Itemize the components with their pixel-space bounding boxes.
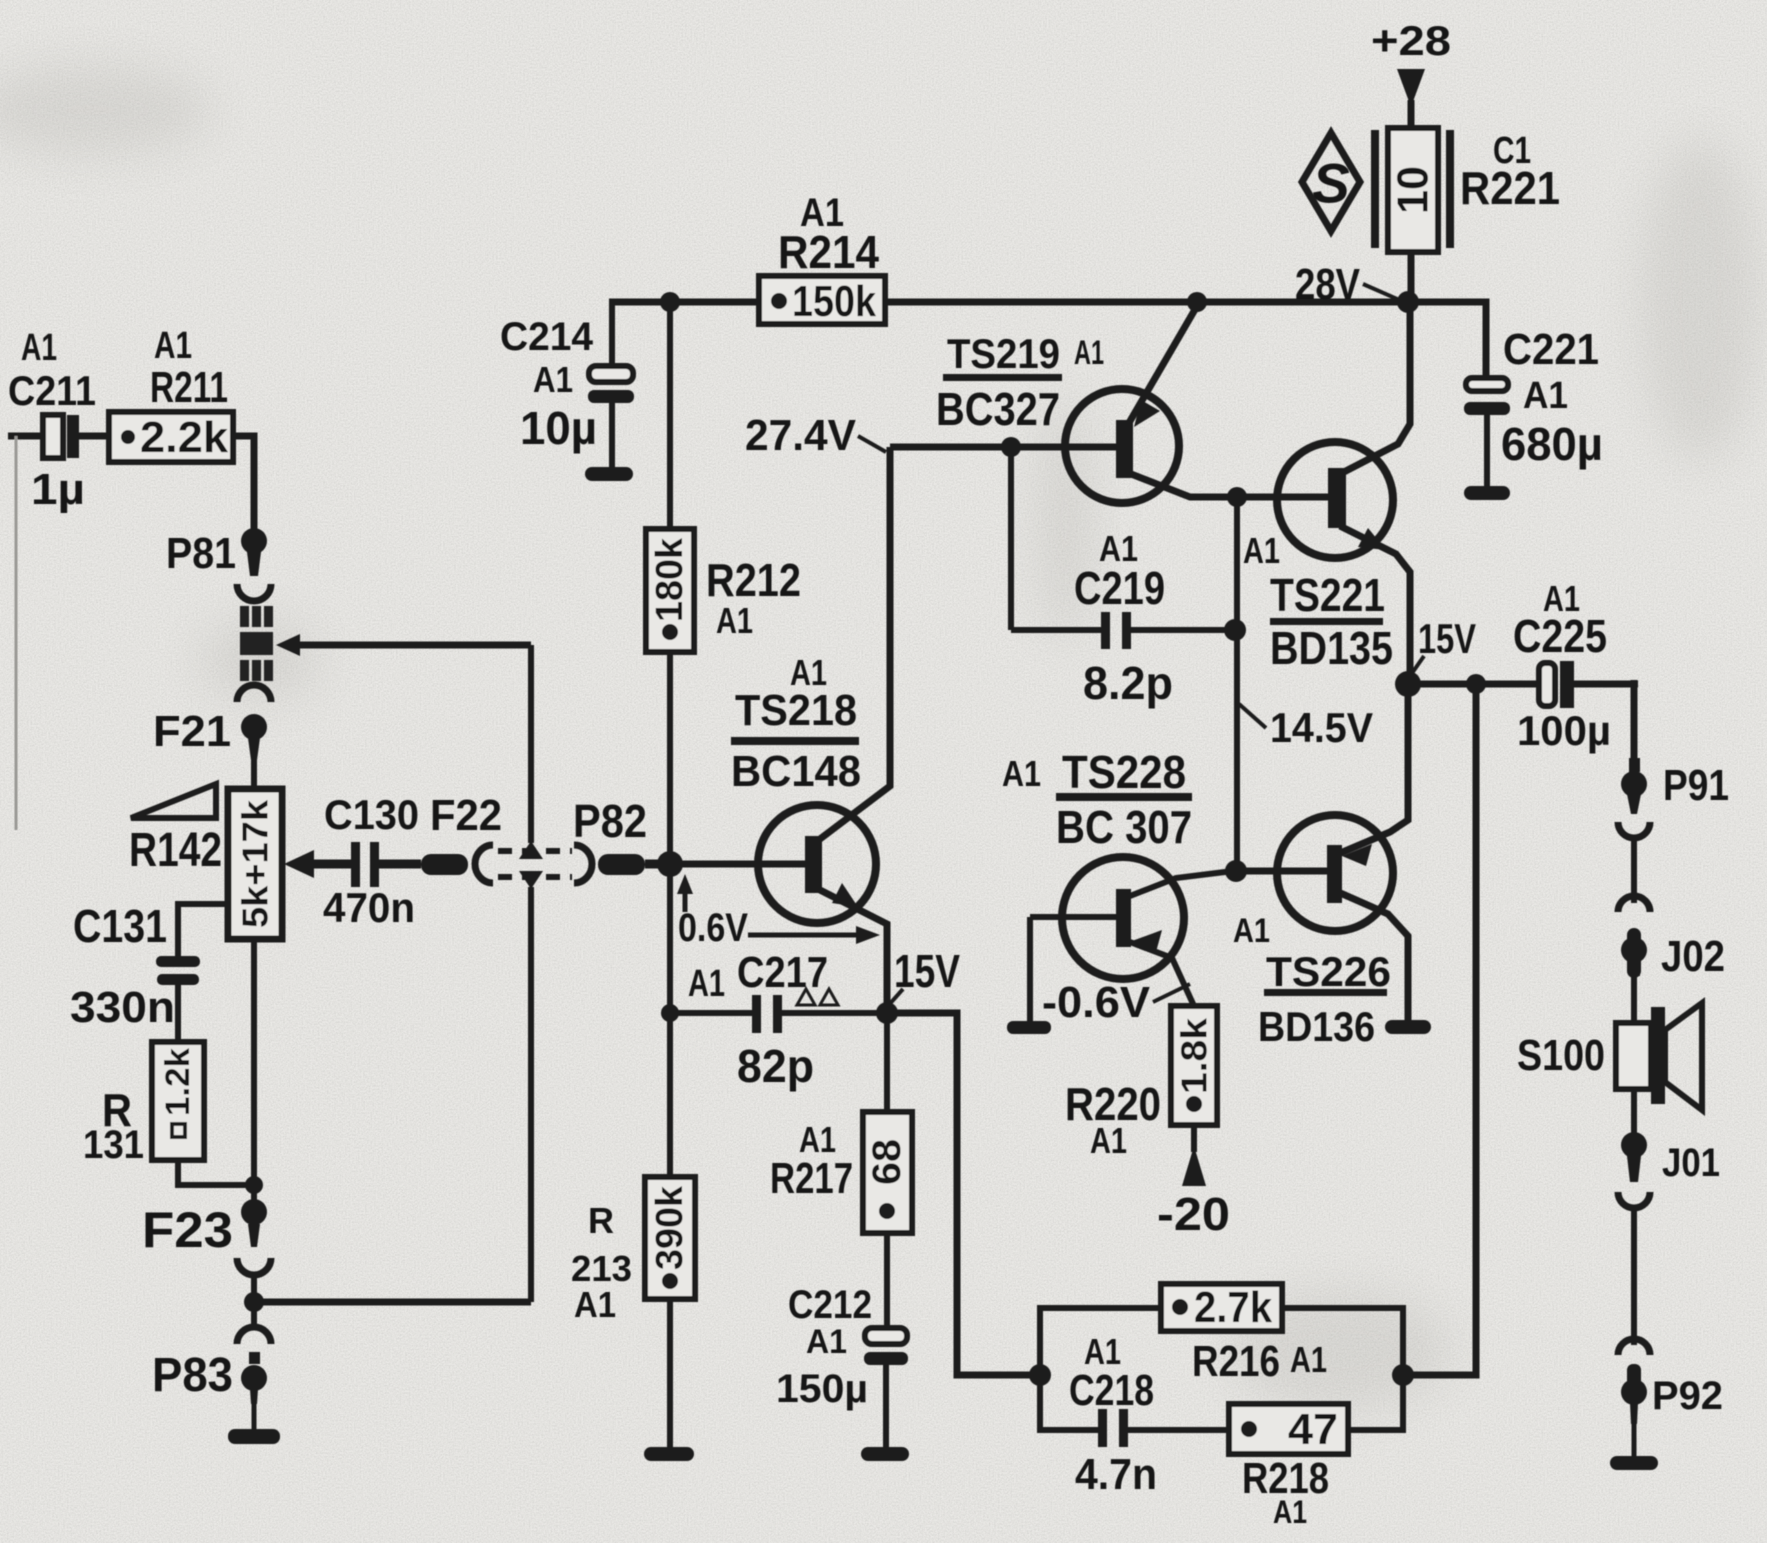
svg-text:BC327: BC327 — [936, 383, 1060, 435]
junction pot/R131 — [245, 1176, 263, 1194]
connector pin P91 — [1621, 758, 1647, 814]
svg-text:A1: A1 — [574, 1284, 616, 1325]
wire feedback to output column — [1403, 684, 1476, 1375]
svg-text:TS218: TS218 — [735, 686, 857, 735]
svg-text:A1: A1 — [1290, 1339, 1327, 1380]
junction node to shield bus — [244, 1292, 531, 1312]
svg-text:A1: A1 — [1002, 753, 1041, 794]
wire base TS218 — [668, 861, 807, 868]
svg-text:P91: P91 — [1663, 761, 1729, 810]
resistor R131 1.2k — [152, 1042, 254, 1185]
connector pin J01 — [1621, 1132, 1647, 1182]
svg-text:P83: P83 — [152, 1349, 233, 1402]
junction C217 left — [661, 1004, 679, 1022]
pot left tap wire to C131 — [178, 904, 228, 956]
svg-text:A1: A1 — [533, 359, 573, 400]
svg-text:A1: A1 — [1273, 1494, 1307, 1530]
svg-text:R: R — [588, 1200, 614, 1241]
junction TS219 emitter / rail — [1187, 292, 1207, 312]
socket above P92 — [1618, 1339, 1650, 1355]
wire TS218 collector to TS219 base — [890, 444, 1118, 451]
svg-text:27.4V: 27.4V — [745, 411, 857, 460]
svg-text:390k: 390k — [649, 1185, 691, 1270]
wire J01 to P92 — [1631, 1206, 1637, 1345]
connector F22 socket — [475, 845, 493, 883]
svg-text:R142: R142 — [129, 824, 222, 877]
socket above P83 — [237, 1327, 271, 1344]
capacitor C218 4.7n branch — [1040, 1375, 1229, 1447]
svg-text:J01: J01 — [1662, 1141, 1720, 1185]
ground at TS226 — [1385, 1020, 1431, 1034]
svg-text:-20: -20 — [1157, 1188, 1230, 1240]
capacitor C214 10µ — [588, 302, 634, 467]
ground at R213 — [644, 1447, 694, 1461]
capacitor C211 1µ — [43, 415, 109, 458]
-20 supply arrow — [1182, 1125, 1206, 1186]
resistor R211 2.2k — [109, 412, 233, 462]
svg-text:82p: 82p — [737, 1040, 814, 1092]
shielded connector hatch block — [240, 606, 273, 681]
socket below F23 — [237, 1258, 271, 1275]
svg-text:A1: A1 — [1523, 375, 1568, 417]
connector pin P83 — [241, 1352, 267, 1430]
svg-text:C219: C219 — [1074, 562, 1165, 614]
transistor TS228 BC307 — [1030, 857, 1233, 1021]
15V tick — [887, 989, 903, 1007]
svg-text:680µ: 680µ — [1501, 418, 1603, 470]
svg-text:TS219: TS219 — [947, 330, 1060, 377]
underline TS218 — [731, 737, 859, 745]
svg-text:F23: F23 — [142, 1202, 233, 1258]
svg-text:C130: C130 — [324, 791, 419, 838]
resistor R212 180k — [646, 529, 694, 652]
connector P82 socket — [574, 845, 592, 883]
27.4V tick — [858, 436, 886, 452]
transistor TS218 BC148 — [758, 447, 890, 1013]
svg-text:2.2k: 2.2k — [140, 413, 229, 462]
resistor R220 1.8k — [1171, 1006, 1217, 1125]
connector P82 male pin — [598, 854, 680, 875]
svg-text:R217: R217 — [770, 1154, 853, 1203]
svg-text:TS226: TS226 — [1266, 948, 1391, 995]
svg-text:131: 131 — [83, 1123, 144, 1167]
marks two triangles at C217 — [797, 989, 838, 1005]
svg-text:TS221: TS221 — [1270, 569, 1385, 621]
potentiometer 5k+17k — [228, 789, 282, 939]
wire down to C219 — [1008, 447, 1014, 630]
feedback right junction — [1392, 1364, 1414, 1386]
shield tap wire to vertical bus — [276, 634, 531, 656]
+28 supply arrow — [1397, 69, 1425, 128]
svg-text:TS228: TS228 — [1062, 746, 1186, 798]
svg-text:P82: P82 — [573, 795, 647, 847]
svg-text:C225: C225 — [1513, 610, 1607, 662]
shield dashed link F22-P82 — [498, 851, 572, 877]
svg-text:S100: S100 — [1517, 1031, 1605, 1080]
ground at P83 — [228, 1429, 280, 1444]
svg-text:47: 47 — [1288, 1405, 1338, 1454]
svg-text:0.6V: 0.6V — [678, 906, 748, 950]
svg-text:A1: A1 — [1243, 530, 1280, 571]
shield bus arrows at F22 — [519, 841, 543, 889]
svg-text:A1: A1 — [1090, 1120, 1127, 1161]
svg-text:213: 213 — [571, 1248, 632, 1289]
wire C225 down to P91 — [1631, 680, 1638, 762]
svg-text:5k+17k: 5k+17k — [235, 799, 276, 928]
svg-text:10µ: 10µ — [520, 402, 597, 454]
svg-text:C221: C221 — [1503, 325, 1599, 374]
svg-text:2.7k: 2.7k — [1194, 1283, 1272, 1332]
svg-text:R221: R221 — [1460, 162, 1560, 214]
resistor R217 68 — [863, 1013, 912, 1233]
ground at P92 — [1610, 1456, 1658, 1470]
svg-text:F22: F22 — [430, 791, 502, 840]
svg-text:+28: +28 — [1371, 17, 1451, 64]
svg-text:A1: A1 — [1233, 912, 1270, 950]
connector pin P81 — [241, 528, 267, 576]
capacitor C225 100µ — [1539, 661, 1638, 708]
ground at C221 — [1464, 486, 1510, 500]
wire base TS226 — [1236, 868, 1331, 875]
svg-text:A1: A1 — [21, 327, 57, 369]
wire 15V node to C225 — [1408, 681, 1539, 688]
svg-text:C212: C212 — [788, 1283, 872, 1327]
junction C219 right — [1224, 619, 1246, 641]
svg-text:470n: 470n — [323, 884, 415, 931]
svg-text:100µ: 100µ — [1517, 707, 1611, 754]
capacitor C131 330n — [156, 956, 200, 1042]
socket below J01 — [1618, 1192, 1650, 1208]
wire to P83 junction — [251, 1272, 257, 1330]
14.5V tick — [1239, 704, 1266, 728]
svg-text:J02: J02 — [1661, 932, 1725, 981]
svg-text:P92: P92 — [1652, 1374, 1723, 1418]
connector pin P92 — [1621, 1364, 1647, 1458]
capacitor C221 680µ — [1464, 378, 1510, 486]
svg-text:180k: 180k — [649, 537, 691, 622]
connector pin J02 — [1621, 928, 1647, 1023]
connector F22 male pin — [421, 854, 468, 875]
junction P82 node — [657, 851, 683, 877]
resistor R214 150k — [759, 276, 885, 326]
svg-text:14.5V: 14.5V — [1270, 704, 1373, 751]
socket below P81 — [237, 584, 271, 601]
svg-text:C211: C211 — [8, 367, 96, 414]
svg-text:R212: R212 — [706, 554, 801, 606]
underline TS219 — [943, 374, 1062, 381]
junction TS219 collector node — [1227, 487, 1247, 507]
svg-text:1.2k: 1.2k — [159, 1048, 197, 1116]
svg-text:A1: A1 — [154, 325, 192, 367]
resistor R218 47 — [1229, 1375, 1403, 1454]
svg-text:150k: 150k — [792, 277, 876, 326]
capacitor C130 470n — [351, 842, 421, 887]
svg-text:A1: A1 — [716, 600, 753, 641]
wire R211 to P81 — [233, 436, 254, 530]
svg-text:R216: R216 — [1192, 1337, 1280, 1386]
svg-text:8.2p: 8.2p — [1083, 657, 1173, 709]
svg-text:A1: A1 — [806, 1323, 847, 1361]
transistor TS221 BD135 — [1277, 302, 1410, 682]
svg-text:R214: R214 — [778, 226, 879, 278]
ground at C214 — [585, 467, 633, 481]
resistor R216 2.7k branch — [1040, 1283, 1403, 1375]
svg-text:F21: F21 — [153, 707, 231, 756]
svg-text:C218: C218 — [1069, 1366, 1154, 1415]
junction C219 top — [1001, 437, 1021, 457]
svg-text:4.7n: 4.7n — [1075, 1450, 1157, 1499]
svg-text:68: 68 — [865, 1139, 909, 1185]
junction 15V output node — [1395, 671, 1421, 697]
svg-text:C131: C131 — [73, 900, 167, 952]
svg-text:C214: C214 — [500, 315, 594, 359]
0.6V arrow to emitter — [748, 926, 880, 944]
socket below P91 — [1618, 822, 1650, 838]
S diamond logo — [1302, 133, 1360, 231]
transistor TS226 BD136 — [1277, 686, 1408, 1020]
connector pin F21 — [241, 714, 267, 790]
junction 28V — [1397, 291, 1419, 313]
transistor TS219 BC327 — [1065, 306, 1237, 503]
svg-text:10: 10 — [1389, 166, 1438, 214]
wire pot bottom down — [251, 939, 257, 1200]
junction TS226 base node — [1225, 860, 1247, 882]
svg-text:S: S — [1312, 152, 1349, 215]
junction 15V node mid — [876, 1002, 898, 1024]
junction output/C225 — [1466, 674, 1486, 694]
wire input stub left of C211 — [8, 436, 43, 830]
svg-text:A1: A1 — [1074, 334, 1104, 372]
svg-text:1µ: 1µ — [31, 465, 85, 514]
wire column R212 — [667, 302, 673, 1013]
svg-text:C217: C217 — [737, 948, 828, 997]
underline TS228 — [1056, 793, 1192, 801]
connector pin F23 — [241, 1199, 267, 1247]
svg-text:15V: 15V — [1418, 615, 1476, 662]
resistor R213 390k — [645, 1013, 695, 1447]
-0.6V tick — [1153, 984, 1190, 1002]
wire 15V to feedback — [887, 1013, 1040, 1375]
underline TS226 — [1264, 989, 1387, 996]
15V tick right — [1410, 656, 1424, 676]
capacitor C219 8.2p — [1011, 612, 1235, 649]
junction rail/R212 column — [660, 292, 680, 312]
capacitor C212 150µ — [864, 1233, 908, 1447]
top supply rail 28V — [609, 302, 1486, 378]
svg-text:BD135: BD135 — [1270, 622, 1393, 674]
svg-text:BC 307: BC 307 — [1056, 801, 1192, 853]
wire P91 to J02 — [1631, 836, 1637, 903]
underline TS221 — [1270, 618, 1383, 625]
svg-text:A1: A1 — [688, 963, 725, 1005]
wiper triangle R142 — [131, 784, 216, 818]
svg-text:R211: R211 — [150, 363, 228, 412]
svg-text:BD136: BD136 — [1258, 1003, 1375, 1050]
0.6V up arrow at base — [677, 874, 693, 912]
speaker S100 — [1616, 1003, 1702, 1134]
svg-text:1.8k: 1.8k — [1174, 1017, 1215, 1094]
svg-text:28V: 28V — [1295, 260, 1361, 309]
svg-text:15V: 15V — [894, 945, 960, 997]
28V tick — [1363, 284, 1404, 302]
wire vertical node to TS226 base — [1234, 497, 1240, 871]
ground at C212 — [861, 1447, 909, 1461]
wiper arrow from C130 into pot — [284, 850, 351, 878]
svg-text:BC148: BC148 — [731, 747, 861, 796]
svg-text:150µ: 150µ — [776, 1367, 868, 1411]
socket above J02 — [1618, 896, 1650, 912]
resistor R221 10 with side bars — [1371, 128, 1454, 302]
ground at TS228 — [1007, 1021, 1051, 1034]
svg-text:-0.6V: -0.6V — [1042, 978, 1151, 1027]
wire base TS221 — [1237, 494, 1332, 501]
vertical shield bus wire — [528, 645, 534, 1302]
svg-text:P81: P81 — [166, 529, 236, 578]
svg-text:330n: 330n — [70, 983, 175, 1032]
capacitor C217 82p — [670, 995, 884, 1033]
feedback left junction — [1029, 1364, 1051, 1386]
socket above F21 — [237, 685, 271, 702]
